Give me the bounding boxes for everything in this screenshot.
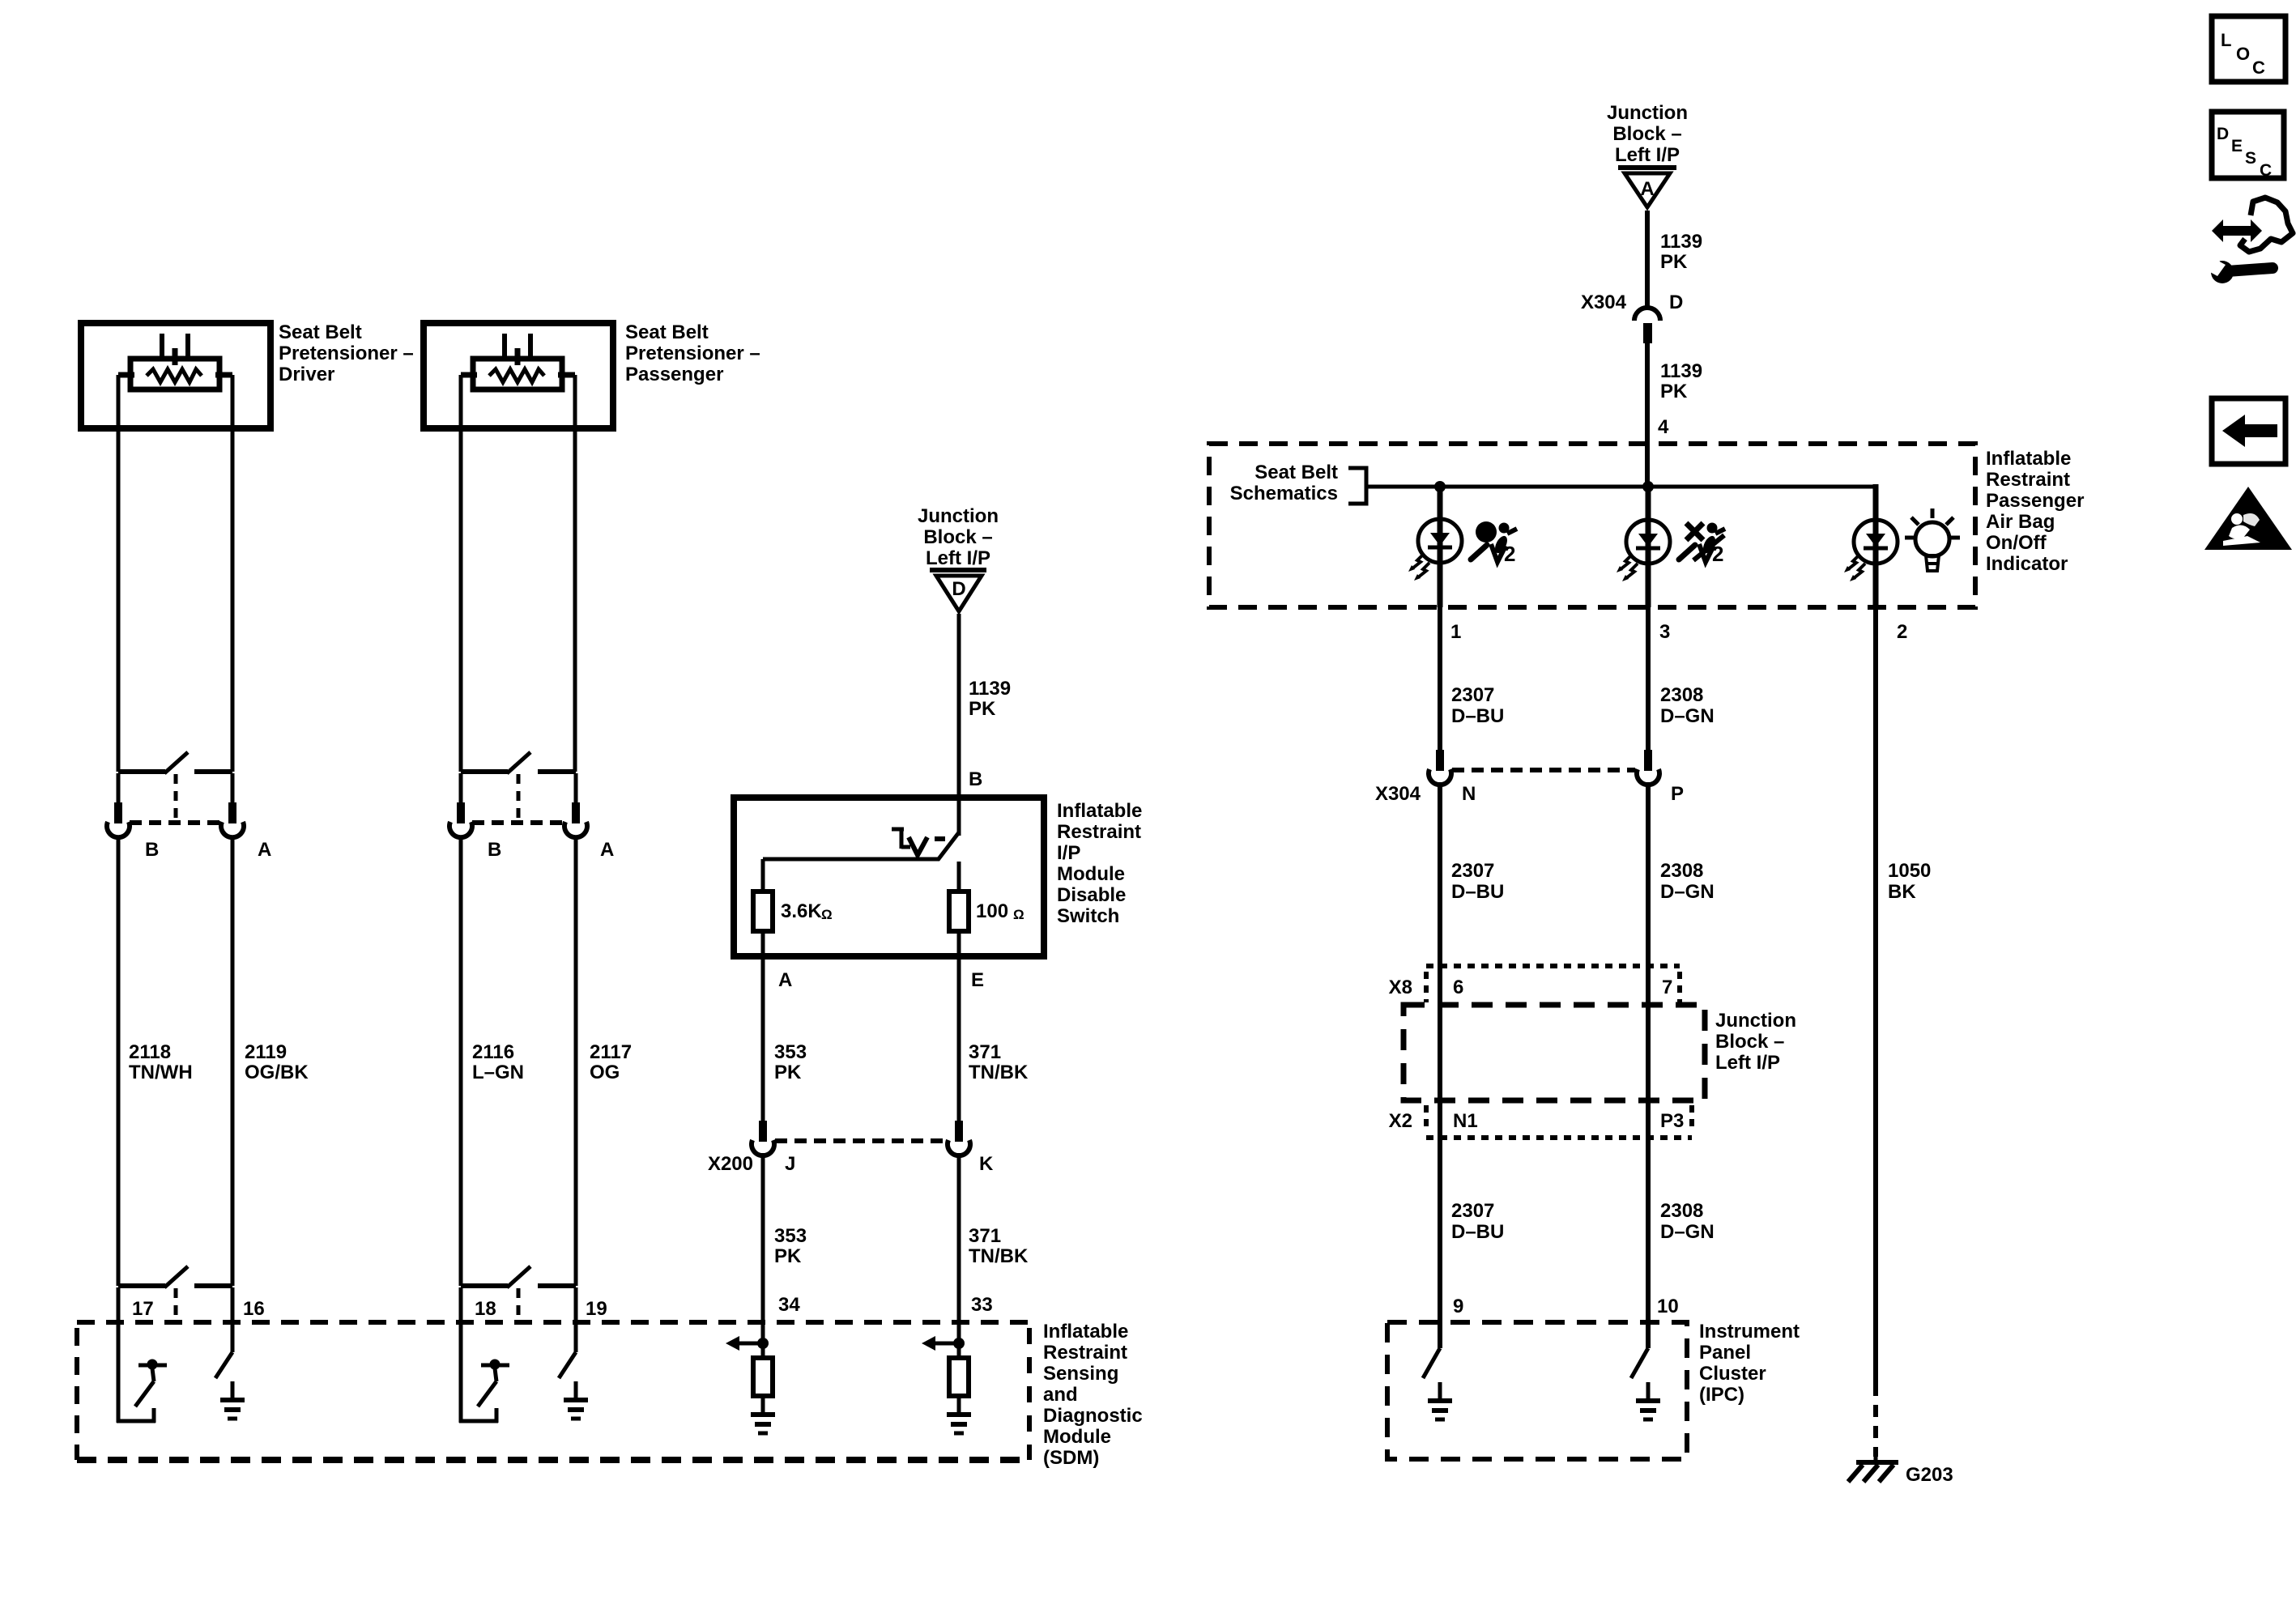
svg-text:2: 2 (1504, 542, 1515, 566)
svg-text:D: D (1669, 291, 1683, 313)
resistor 100 ohm (949, 891, 969, 931)
svg-text:Restraint: Restraint (1043, 1342, 1127, 1364)
svg-text:353: 353 (774, 1225, 807, 1247)
svg-text:2116: 2116 (472, 1041, 514, 1063)
svg-text:19: 19 (586, 1298, 607, 1320)
fixed contact stub to 100 ohm (957, 862, 961, 891)
wire squib left lead driver (118, 372, 134, 378)
junction dot branch 3 (1642, 481, 1654, 492)
svg-text:J: J (785, 1153, 795, 1175)
dashed link passenger connector (472, 820, 563, 825)
svg-text:Restraint: Restraint (1057, 821, 1141, 843)
LOC icon box (2212, 16, 2285, 82)
instrument panel cluster dashed box (1387, 1322, 1687, 1459)
svg-text:C: C (2260, 161, 2272, 180)
svg-text:D–BU: D–BU (1451, 881, 1504, 903)
dashed link driver connector (130, 820, 220, 825)
svg-text:Block –: Block – (1715, 1031, 1784, 1053)
connector X200 pin J (759, 1121, 767, 1142)
shorting bar switch driver connector (118, 769, 165, 774)
SDM internal resistor pin 33 (949, 1358, 969, 1396)
svg-text:D–BU: D–BU (1451, 705, 1504, 727)
key symbol disable switch (892, 828, 904, 832)
svg-text:P: P (1671, 783, 1684, 805)
connector X200 pin K (955, 1121, 963, 1142)
svg-text:O: O (2236, 44, 2250, 64)
squib resistance element passenger (489, 369, 544, 382)
svg-text:Disable: Disable (1057, 884, 1126, 906)
wire arm to resistor 3.6K (763, 857, 939, 862)
svg-text:L: L (2221, 30, 2231, 50)
indicator LED branch 2 wire (1873, 484, 1879, 607)
svg-text:S: S (2245, 149, 2256, 168)
svg-text:3: 3 (1659, 621, 1670, 643)
junction block triangle A (1618, 165, 1676, 170)
svg-text:2307: 2307 (1451, 860, 1494, 882)
svg-text:A: A (258, 839, 271, 861)
svg-text:371: 371 (969, 1225, 1001, 1247)
wire 371 TN/BK upper (957, 931, 961, 1121)
SDM measuring circuit pin 34 (761, 1322, 765, 1358)
svg-text:OG/BK: OG/BK (245, 1062, 309, 1083)
back arrow icon box (2212, 398, 2285, 464)
IPC driver switch pin 10 (1646, 1322, 1651, 1348)
svg-text:Diagnostic: Diagnostic (1043, 1405, 1143, 1427)
wire into SDM pin 18 (459, 1287, 463, 1322)
wire 2307 D-BU middle (1438, 782, 1442, 1322)
switch arm disable switch (938, 832, 959, 860)
svg-text:1139: 1139 (969, 678, 1011, 700)
svg-text:C: C (2252, 57, 2265, 78)
svg-text:Pretensioner –: Pretensioner – (279, 343, 414, 364)
wire 2117 OG (574, 836, 578, 1286)
wire 2308 D-GN middle (1646, 782, 1651, 1322)
wire 353 PK upper (761, 931, 765, 1121)
svg-text:Schematics: Schematics (1230, 483, 1338, 504)
svg-text:X304: X304 (1375, 783, 1421, 805)
ground inside IPC pin 9 (1438, 1382, 1442, 1401)
svg-text:PK: PK (1660, 251, 1688, 273)
svg-text:Inflatable: Inflatable (1986, 448, 2071, 470)
wire 1050 BK (1873, 607, 1878, 1384)
svg-text:B: B (969, 768, 982, 790)
svg-text:D–GN: D–GN (1660, 705, 1715, 727)
connector driver pin A (231, 773, 235, 802)
dashed link X304 N-P (1452, 768, 1635, 772)
svg-text:2307: 2307 (1451, 1200, 1494, 1222)
svg-text:17: 17 (132, 1298, 154, 1320)
svg-text:34: 34 (778, 1294, 800, 1316)
LED lamp branch 3 (1626, 520, 1670, 564)
connector X304 pin N (1436, 750, 1444, 771)
igniter squib passenger (502, 334, 507, 361)
ground inside SDM pin 33 (957, 1396, 961, 1415)
svg-text:K: K (979, 1153, 994, 1175)
wire squib right lead driver (215, 372, 232, 378)
I/P module disable switch box (734, 798, 1044, 956)
svg-text:1050: 1050 (1888, 860, 1931, 882)
svg-text:N: N (1462, 783, 1476, 805)
svg-text:Inflatable: Inflatable (1043, 1321, 1128, 1343)
SDM firing switch driver (147, 1360, 158, 1370)
svg-text:TN/BK: TN/BK (969, 1062, 1029, 1083)
connector passenger pin B (459, 773, 463, 802)
svg-text:E: E (2231, 137, 2243, 155)
svg-text:D–BU: D–BU (1451, 1221, 1504, 1243)
svg-text:Switch: Switch (1057, 905, 1119, 927)
wire 1139 PK feed upper (1645, 211, 1650, 309)
light bulb icon (1915, 522, 1949, 556)
svg-text:16: 16 (243, 1298, 265, 1320)
wrench icon (2227, 268, 2273, 271)
svg-text:2119: 2119 (245, 1041, 287, 1063)
svg-text:G203: G203 (1906, 1464, 1953, 1486)
svg-text:6: 6 (1453, 977, 1463, 998)
SDM firing switch passenger (490, 1360, 501, 1370)
wire 2119 OG/BK (231, 836, 235, 1286)
svg-text:PK: PK (774, 1245, 802, 1267)
air bag warning icon (1476, 521, 1497, 543)
svg-text:2117: 2117 (590, 1041, 632, 1063)
svg-text:A: A (1640, 178, 1654, 200)
svg-text:(SDM): (SDM) (1043, 1447, 1099, 1469)
svg-text:D–GN: D–GN (1660, 1221, 1715, 1243)
connector X304 pin P (1644, 750, 1652, 771)
svg-text:Module: Module (1057, 863, 1125, 885)
junction dot branch 1 (1434, 481, 1446, 492)
resistor 3.6K ohm (753, 891, 773, 931)
svg-text:18: 18 (475, 1298, 496, 1320)
SDM measuring circuit pin 33 (957, 1322, 961, 1358)
junction block left I/P dashed box (1404, 1005, 1705, 1100)
svg-text:Sensing: Sensing (1043, 1363, 1118, 1385)
svg-text:TN/WH: TN/WH (129, 1062, 193, 1083)
svg-text:N1: N1 (1453, 1110, 1478, 1132)
air bag off icon (1707, 523, 1718, 534)
SDM low side switch to ground passenger (574, 1322, 578, 1352)
shorting bar switch SDM pins 18/19 (461, 1283, 508, 1288)
svg-text:33: 33 (971, 1294, 993, 1316)
svg-text:2308: 2308 (1660, 860, 1703, 882)
wire 1139 PK feed lower (1645, 343, 1650, 487)
svg-text:Junction: Junction (1715, 1010, 1796, 1032)
wire 1139 PK from triangle D (957, 614, 961, 836)
svg-text:2308: 2308 (1660, 684, 1703, 706)
wire 1050 BK dashed tail (1873, 1384, 1878, 1457)
svg-text:X2: X2 (1389, 1110, 1412, 1132)
wire 353 PK lower (761, 1153, 765, 1322)
svg-text:1: 1 (1450, 621, 1461, 643)
wire squib left lead passenger (461, 372, 477, 378)
seat belt schematics bracket (1348, 468, 1366, 504)
svg-text:E: E (971, 969, 984, 991)
svg-text:Seat Belt: Seat Belt (625, 321, 709, 343)
seat belt pretensioner driver housing (81, 323, 270, 428)
svg-text:On/Off: On/Off (1986, 532, 2047, 554)
dashed link X200 (775, 1138, 946, 1143)
svg-text:Cluster: Cluster (1699, 1363, 1766, 1385)
svg-text:3.6K: 3.6K (781, 900, 822, 922)
air bag on/off indicator dashed box (1209, 444, 1975, 607)
svg-text:D: D (952, 578, 965, 600)
shorting bar switch SDM pins 17/16 (118, 1283, 165, 1288)
wire into SDM pin 16 (231, 1287, 235, 1322)
svg-text:Inflatable: Inflatable (1057, 800, 1142, 822)
svg-text:B: B (145, 839, 159, 861)
ground G203 (1874, 1457, 1878, 1462)
svg-text:Restraint: Restraint (1986, 469, 2070, 491)
svg-text:2: 2 (1897, 621, 1907, 643)
wire 2116 L-GN (459, 836, 463, 1286)
svg-text:9: 9 (1453, 1296, 1463, 1317)
LED lamp branch 2 (1854, 520, 1898, 564)
svg-text:TN/BK: TN/BK (969, 1245, 1029, 1267)
svg-text:Air Bag: Air Bag (1986, 511, 2055, 533)
wire into SDM pin 17 (117, 1287, 121, 1322)
mechanical link dash disable switch (935, 836, 945, 841)
ground inside IPC pin 10 (1646, 1382, 1651, 1401)
svg-text:Left I/P: Left I/P (926, 547, 990, 569)
DESC icon box (2212, 112, 2284, 178)
svg-text:PK: PK (969, 698, 996, 720)
wire 2307 D-BU upper (1438, 607, 1442, 750)
svg-text:Left I/P: Left I/P (1715, 1052, 1780, 1074)
svg-text:Instrument: Instrument (1699, 1321, 1800, 1343)
connector passenger pin A (574, 773, 578, 802)
seat belt pretensioner passenger housing (424, 323, 613, 428)
svg-text:and: and (1043, 1384, 1078, 1406)
indicator feed bus wire (1366, 485, 1876, 489)
wire 2308 D-GN upper (1646, 607, 1651, 750)
ground inside SDM pin 34 (761, 1396, 765, 1415)
svg-text:X200: X200 (708, 1153, 753, 1175)
connector X8 dotted box (1426, 964, 1680, 968)
SDM firing loop high side passenger (459, 1322, 463, 1423)
IPC driver switch pin 9 (1438, 1322, 1442, 1348)
svg-text:Seat Belt: Seat Belt (279, 321, 362, 343)
svg-text:7: 7 (1662, 977, 1672, 998)
svg-text:L–GN: L–GN (472, 1062, 524, 1083)
svg-text:PK: PK (1660, 381, 1688, 402)
svg-text:Seat Belt: Seat Belt (1254, 462, 1338, 483)
svg-text:D–GN: D–GN (1660, 881, 1715, 903)
svg-text:A: A (600, 839, 614, 861)
svg-text:10: 10 (1657, 1296, 1679, 1317)
svg-text:Passenger: Passenger (1986, 490, 2084, 512)
igniter squib driver (160, 334, 164, 361)
connector X2 dotted box (1424, 1105, 1429, 1133)
svg-text:2308: 2308 (1660, 1200, 1703, 1222)
connector X304 pin D (1634, 308, 1660, 321)
SDM low side switch to ground driver (231, 1322, 235, 1352)
svg-text:PK: PK (774, 1062, 802, 1083)
svg-text:Block –: Block – (923, 526, 992, 548)
svg-text:353: 353 (774, 1041, 807, 1063)
svg-text:Junction: Junction (918, 505, 999, 527)
wire 371 TN/BK lower (957, 1153, 961, 1322)
svg-text:2118: 2118 (129, 1041, 171, 1063)
wire squib right lead passenger (558, 372, 575, 378)
svg-text:X8: X8 (1389, 977, 1412, 998)
svg-text:X304: X304 (1581, 291, 1627, 313)
svg-text:I/P: I/P (1057, 842, 1080, 864)
svg-text:BK: BK (1888, 881, 1916, 903)
schematic navigation icon (2212, 219, 2262, 242)
svg-text:OG: OG (590, 1062, 620, 1083)
SDM internal resistor pin 34 (753, 1358, 773, 1396)
svg-text:A: A (778, 969, 792, 991)
svg-text:P3: P3 (1660, 1110, 1684, 1132)
ground inside SDM driver (231, 1381, 235, 1400)
ground inside SDM passenger (574, 1381, 578, 1400)
indicator LED branch 1 wire (1438, 487, 1443, 607)
svg-text:Passenger: Passenger (625, 364, 723, 385)
svg-text:Ω: Ω (821, 907, 833, 922)
shorting bar switch passenger connector (461, 769, 508, 774)
connector driver pin B (117, 773, 121, 802)
svg-text:1139: 1139 (1660, 231, 1702, 253)
svg-text:4: 4 (1658, 416, 1669, 438)
svg-text:1139: 1139 (1660, 360, 1702, 382)
svg-text:Module: Module (1043, 1426, 1111, 1448)
wire 2118 TN/WH (117, 836, 121, 1286)
svg-text:371: 371 (969, 1041, 1001, 1063)
squib resistance element driver (147, 369, 202, 382)
svg-text:Panel: Panel (1699, 1342, 1751, 1364)
air bag caution triangle icon (2204, 487, 2292, 550)
svg-text:Indicator: Indicator (1986, 553, 2068, 575)
svg-text:(IPC): (IPC) (1699, 1384, 1744, 1406)
indicator LED branch 3 wire (1646, 487, 1651, 607)
svg-text:Ω: Ω (1013, 907, 1024, 922)
SDM module dashed box (77, 1320, 1029, 1325)
svg-text:Driver: Driver (279, 364, 334, 385)
svg-text:D: D (2217, 125, 2229, 143)
svg-text:B: B (488, 839, 501, 861)
svg-text:Junction: Junction (1607, 102, 1688, 124)
LED lamp branch 1 (1418, 519, 1462, 563)
svg-text:100: 100 (976, 900, 1008, 922)
svg-text:Block –: Block – (1612, 123, 1681, 145)
SDM firing loop high side driver (117, 1322, 121, 1423)
svg-text:Left I/P: Left I/P (1615, 144, 1680, 166)
svg-text:2307: 2307 (1451, 684, 1494, 706)
junction block triangle D (930, 568, 986, 572)
svg-text:Pretensioner –: Pretensioner – (625, 343, 760, 364)
wire into SDM pin 19 (574, 1287, 578, 1322)
